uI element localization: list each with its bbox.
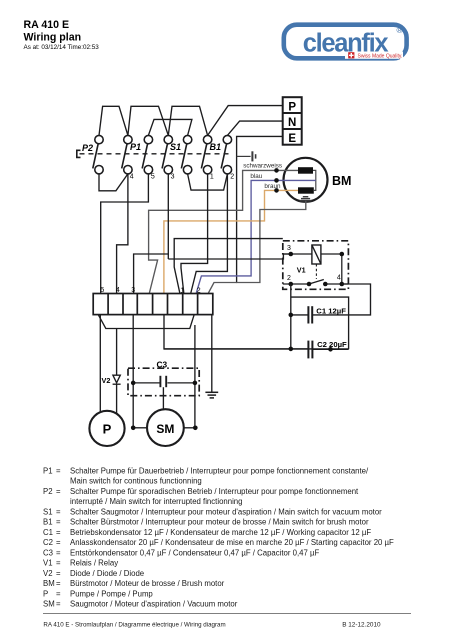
switch B1 pole6 [201,135,211,173]
capacitor C1 symbol [308,306,312,323]
svg-text:=: = [56,569,61,578]
wire E terminal down [237,136,283,282]
wire bus to diode V2 [116,329,118,376]
switch B1 pole7 [221,135,231,173]
wire bridge pole1-pole2 top [99,106,128,135]
wire strip 5 to capacitor C2 [164,315,349,349]
switch P1 pole3 [142,135,152,173]
svg-text:P: P [43,589,48,598]
wire pole1 to pole2 bottom bridge [99,174,128,191]
wire bridge pole4-pole6 top [168,106,207,135]
BM brush link wire [313,170,316,190]
svg-text:P: P [103,422,112,437]
coupling end bracket [77,150,81,157]
switch S1 pole4 [162,135,172,173]
svg-text:V1: V1 [297,265,306,274]
svg-text:2: 2 [197,287,201,294]
svg-text:BM: BM [43,579,55,588]
earth ground symbol [205,392,218,398]
junction dot schwarzweiss [274,168,279,173]
svg-text:=: = [56,528,61,537]
svg-text:=: = [56,600,61,609]
svg-text:C3: C3 [43,548,53,557]
wire C3 mid tap to SM top [162,387,164,409]
svg-text:RA 410 E: RA 410 E [24,19,70,31]
wire SM right stub [184,427,196,429]
junction dot C2 left [289,347,294,352]
junction dot C3 right [193,381,198,386]
svg-text:Saugmotor / Moteur d'aspiratio: Saugmotor / Moteur d'aspiration / Vacuum… [70,600,238,609]
svg-text:3: 3 [171,173,175,180]
svg-text:Schalter Pumpe für sporadische: Schalter Pumpe für sporadischen Betrieb … [70,487,359,496]
svg-text:3: 3 [287,245,291,252]
svg-text:2: 2 [287,275,291,282]
wire pole2 bottom to strip slot 4 [117,174,128,293]
svg-text:Schalter Pumpe für Dauerbetrie: Schalter Pumpe für Dauerbetrieb / Interr… [70,466,369,475]
svg-text:Betriebskondensator 12 µF / Ko: Betriebskondensator 12 µF / Kondensateur… [70,528,371,537]
BM top brush [298,167,313,174]
svg-text:P2: P2 [82,143,93,153]
relay coil V1 [312,245,321,264]
terminal strip X1 [93,294,213,315]
svg-text:=: = [56,507,61,516]
svg-text:RA 410 E - Stromlaufplan / Dia: RA 410 E - Stromlaufplan / Diagramme éle… [43,621,225,628]
svg-text:BM: BM [332,174,351,188]
wire strip 3 to C3 left and SM left [132,315,134,428]
svg-text:SM: SM [43,600,55,609]
wire pole7 bottom to slot 2 [191,174,228,293]
junction dot blau [274,178,279,183]
junction dot relay node 2 [289,282,294,287]
wire node1 feeder to relay side [174,239,283,293]
svg-text:S1: S1 [43,507,53,516]
capacitor C2 symbol [308,341,312,359]
svg-text:4: 4 [116,287,120,294]
legend [43,466,394,608]
terminal box P N E [283,97,302,145]
svg-text:P1: P1 [130,142,141,152]
wire diode V2 to pump P right [116,384,118,414]
wire SM left stub [133,427,147,429]
svg-text:5: 5 [151,173,155,180]
wire pole4 to relay node 3 [168,254,290,259]
wire braun (orange) [164,190,298,293]
svg-text:Wiring plan: Wiring plan [24,31,82,43]
wire motor chassis to earth (grey) [208,201,305,293]
wire pole3 bottom to strip slot 5 [101,174,149,293]
svg-text:interrupté / Main switch for i: interrupté / Main switch for interrupted… [70,497,242,506]
diode V2 [113,375,121,384]
svg-text:V2: V2 [43,569,53,578]
svg-text:P1: P1 [43,466,53,475]
wire C2 left lead [164,348,308,350]
svg-text:Pumpe / Pompe / Pump: Pumpe / Pompe / Pump [70,589,153,598]
wire strip 1 to pump P left [99,315,101,413]
svg-text:Diode / Diode / Diode: Diode / Diode / Diode [70,569,144,578]
junction dot relay node 3 right [340,252,345,257]
wire relay node 2 bus down [290,284,292,349]
relay top rail node 3 [283,254,341,284]
svg-text:Schalter Bürstmotor / Interrup: Schalter Bürstmotor / Interrupteur pour … [70,518,369,527]
BM chassis symbol [299,197,311,201]
svg-text:Schalter Saugmotor / Interrupt: Schalter Saugmotor / Interrupteur pour m… [70,507,382,516]
relay bottom rail nodes 2-4 [283,283,349,285]
svg-text:2: 2 [230,174,234,181]
svg-text:braun: braun [264,183,281,190]
capacitor C3 box (dash-dot) [128,368,199,396]
wire pole2 top to pole4 top [128,106,168,135]
junction dot relay node 4 [340,282,345,287]
svg-text:S1: S1 [170,142,181,152]
svg-text:C2 20µF: C2 20µF [317,340,347,349]
wire strip earth drop [211,315,213,393]
svg-text:=: = [56,538,61,547]
wire tee to strip slot 3 [134,254,169,293]
wire relay node 4 to C1 right [312,284,370,315]
wire P terminal to pole6 top [208,106,283,136]
svg-text:1: 1 [210,174,214,181]
wire C3 right vertical to SM right [194,325,196,428]
svg-text:blau: blau [250,173,262,180]
svg-text:B1: B1 [210,142,222,152]
svg-text:B 12-12.2010: B 12-12.2010 [342,621,381,628]
junction dot relay node 3 left [289,252,294,257]
junction dot relay contact right [323,282,328,287]
wire pole6 bottom to slot 1 [181,174,208,293]
svg-text:5: 5 [100,287,104,294]
switch P2 pole1 [93,135,103,173]
svg-text:N: N [288,117,296,129]
svg-text:=: = [56,579,61,588]
svg-text:=: = [56,548,61,557]
relay actuator dashed link [315,264,317,279]
wire strip bus funnel [98,315,194,329]
svg-text:Bürstmotor / Moteur de brosse: Bürstmotor / Moteur de brosse / Brush mo… [70,579,225,588]
wire bridge pole3-pole5 top [148,119,192,135]
svg-text:V1: V1 [43,559,53,568]
svg-text:=: = [56,559,61,568]
switch P1 pole2 [122,135,132,173]
svg-text:=: = [56,466,61,475]
svg-text:4: 4 [130,173,134,180]
capacitor C3 symbol [133,376,195,387]
motor SM circle [147,409,184,446]
relay contact lever [309,280,324,285]
svg-text:B1: B1 [43,518,53,527]
cleanfix logo [284,25,407,60]
junction dot braun [274,188,279,193]
switch S1 pole5 [181,135,191,173]
svg-text:C1: C1 [43,528,53,537]
svg-text:Entstörkondensator 0,47 µF /: Entstörkondensator 0,47 µF / Condensateu… [70,548,319,557]
wire blau (blue) [196,180,315,293]
svg-text:Main switch for continous func: Main switch for continous functionning [70,477,202,486]
BM bottom brush [298,187,314,193]
svg-text:Swiss Made Quality.: Swiss Made Quality. [358,54,403,60]
svg-text:Relais / Relay: Relais / Relay [70,559,118,568]
junction dot SM right [193,426,198,431]
junction dot C1 left [289,313,294,318]
svg-text:E: E [288,133,296,145]
svg-text:V2: V2 [102,376,111,385]
svg-text:3: 3 [131,287,135,294]
svg-text:=: = [56,487,61,496]
motor BM circle [284,158,328,202]
svg-text:=: = [56,518,61,527]
relay V1 box (dash-dot) [283,241,349,289]
mechanical coupling dashed line [80,153,232,155]
svg-text:P2: P2 [43,487,53,496]
svg-text:As at: 03/12/14 Time:02:53: As at: 03/12/14 Time:02:53 [24,44,100,51]
svg-text:SM: SM [156,422,174,436]
footer rule [43,613,411,615]
svg-text:C1 12µF: C1 12µF [316,307,346,316]
junction dot relay contact left [307,282,312,287]
junction dot C3 left [131,381,136,386]
svg-text:C3: C3 [157,360,168,370]
junction dot SM left [131,426,136,431]
motor P circle [89,411,124,446]
wire relay node 2 to C2 right [291,297,349,349]
svg-text:=: = [56,589,61,598]
svg-text:1: 1 [180,287,184,294]
svg-text:Anlasskondensator 20 µF / Kond: Anlasskondensator 20 µF / Kondensateur d… [70,538,394,547]
wire N terminal to pole7 top [227,121,282,135]
wire schwarzweiss (grey) [149,170,298,293]
svg-text:P: P [288,101,296,113]
junction dot C2 right [328,347,333,352]
wire pole4 bottom down [167,174,169,259]
wire bridge pole5-pole7 bottom [188,174,228,190]
wire C1 left lead [291,314,308,316]
chassis ground symbol on E wire [237,151,256,161]
svg-text:C2: C2 [43,538,53,547]
svg-text:4: 4 [337,275,341,282]
wire C2 right lead [312,348,348,350]
svg-text:®: ® [397,25,404,35]
